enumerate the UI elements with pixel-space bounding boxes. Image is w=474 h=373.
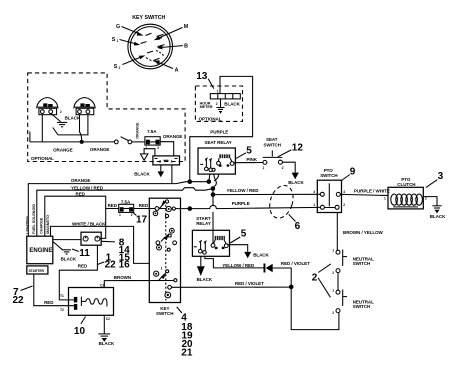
- svg-text:ENGINE: ENGINE: [29, 248, 52, 254]
- svg-text:7.5A: 7.5A: [147, 129, 157, 134]
- svg-text:YELLOW / RED: YELLOW / RED: [227, 188, 260, 193]
- svg-text:PURPLE / WHITE: PURPLE / WHITE: [354, 188, 390, 193]
- lamp ground: [51, 114, 67, 127]
- junction node E: [188, 206, 193, 211]
- svg-text:2: 2: [157, 146, 159, 150]
- red branch to fuse F2: [106, 208, 119, 210]
- purple wire from hour meter to bus: [190, 76, 253, 181]
- start relay to yellow/red diode wire: [205, 256, 264, 268]
- svg-text:1: 1: [171, 160, 173, 164]
- junction node B: [207, 179, 212, 184]
- headlight L2: [74, 98, 95, 115]
- yellow/red wire D to PTO switch: [213, 193, 320, 195]
- svg-text:2: 2: [343, 203, 345, 207]
- svg-text:4: 4: [343, 190, 345, 194]
- svg-text:1: 1: [263, 166, 265, 170]
- seat switch SW3: [263, 137, 284, 170]
- svg-text:2: 2: [131, 213, 133, 217]
- starter cable to solenoid T2: [34, 274, 74, 306]
- start relay contact ground: [228, 245, 269, 259]
- lamp connector J1: [153, 156, 180, 165]
- engine block: [27, 236, 53, 264]
- hour meter M1 terminal strip: [210, 90, 240, 99]
- svg-text:BLACK: BLACK: [224, 102, 240, 107]
- key switch pins bottom group: [154, 270, 177, 298]
- svg-text:BLACK: BLACK: [65, 116, 81, 121]
- label 8 leader: [102, 240, 115, 243]
- svg-text:CHARGE: CHARGE: [40, 217, 44, 234]
- neutral switch SW6: [332, 288, 374, 315]
- junction node A: [188, 179, 193, 184]
- svg-text:1: 1: [119, 213, 121, 217]
- brown wire solenoid C1 to key switch: [104, 281, 174, 288]
- svg-text:SWITCH: SWITCH: [156, 311, 173, 316]
- svg-text:RELAY: RELAY: [196, 221, 211, 226]
- svg-text:BLACK: BLACK: [197, 277, 213, 282]
- svg-text:1: 1: [161, 267, 163, 271]
- harness loop 6 (dashed ellipse): [266, 182, 297, 221]
- key switch pins top group: [153, 200, 175, 271]
- svg-text:1: 1: [384, 197, 386, 201]
- svg-text:6: 6: [295, 221, 301, 232]
- red wire fuse F2 through key switch: [134, 208, 190, 210]
- svg-text:ORANGE: ORANGE: [163, 134, 182, 139]
- svg-text:2: 2: [119, 66, 121, 70]
- svg-text:LIGHTING: LIGHTING: [26, 216, 30, 234]
- svg-text:5: 5: [246, 145, 252, 156]
- wire engine to connector J2: [53, 239, 81, 241]
- svg-text:ORANGE: ORANGE: [136, 122, 140, 139]
- svg-text:1: 1: [332, 288, 334, 292]
- hour meter ground: [216, 99, 224, 114]
- svg-text:12: 12: [292, 142, 304, 153]
- wire seat relay coil to node C: [213, 174, 217, 188]
- junction dot red/violet: [289, 285, 294, 290]
- svg-text:2: 2: [332, 311, 334, 315]
- svg-text:11: 11: [79, 248, 90, 259]
- svg-text:1: 1: [313, 203, 315, 207]
- svg-text:2: 2: [159, 160, 161, 164]
- svg-text:ORANGE: ORANGE: [90, 147, 109, 152]
- svg-text:T1: T1: [60, 294, 64, 298]
- yellow/red bus: [37, 188, 213, 237]
- wire seat relay coil to node B: [208, 174, 211, 181]
- brown/yellow drop to neutral switch: [336, 213, 338, 251]
- svg-text:BROWN: BROWN: [114, 275, 131, 280]
- light switch SW2: [114, 137, 131, 144]
- svg-text:2: 2: [332, 271, 334, 275]
- svg-text:RED: RED: [78, 264, 88, 269]
- svg-text:OPTIONAL: OPTIONAL: [199, 116, 222, 121]
- red bus: [45, 196, 106, 238]
- svg-text:A: A: [175, 68, 179, 74]
- svg-text:PURPLE: PURPLE: [210, 130, 228, 135]
- svg-text:3: 3: [438, 171, 444, 182]
- svg-text:SWITCH: SWITCH: [320, 173, 337, 178]
- key switch connector box SW1 rear: [149, 198, 180, 302]
- svg-text:STARTER: STARTER: [29, 269, 45, 273]
- svg-text:2: 2: [312, 272, 318, 283]
- svg-text:M: M: [184, 24, 189, 30]
- svg-text:BLACK: BLACK: [253, 253, 269, 258]
- svg-text:BLACK: BLACK: [430, 214, 446, 219]
- key switch terminal S2 contact: [147, 51, 153, 53]
- headlight L1: [37, 98, 58, 115]
- connector drop to orange bus: [171, 165, 173, 184]
- svg-text:FUEL SOLENOID: FUEL SOLENOID: [32, 204, 36, 234]
- wire lamp L1 to orange bus: [41, 115, 43, 142]
- svg-text:OPTIONAL: OPTIONAL: [31, 156, 54, 161]
- red wire connector J2 to solenoid T1: [59, 245, 97, 300]
- fuse F1 7.5A: [145, 129, 160, 150]
- wire node C to node D down to start relay: [212, 189, 214, 206]
- key switch terminal B contact: [158, 45, 165, 47]
- PTO clutch L1: [384, 177, 427, 209]
- svg-text:SWITCH: SWITCH: [353, 304, 370, 309]
- svg-text:SWITCH: SWITCH: [353, 261, 370, 266]
- start relay coil ground: [197, 256, 213, 282]
- svg-text:BLACK: BLACK: [99, 341, 115, 346]
- wire lamp L2 to junction: [80, 115, 82, 142]
- key switch detent arc (dashed): [146, 58, 160, 62]
- svg-text:1: 1: [117, 39, 119, 43]
- svg-text:MAGNETO: MAGNETO: [46, 215, 50, 234]
- svg-text:BROWN / YELLOW: BROWN / YELLOW: [343, 230, 384, 235]
- solenoid C2 ground: [98, 315, 114, 346]
- svg-text:T2: T2: [60, 308, 64, 312]
- svg-text:BLACK: BLACK: [134, 171, 150, 176]
- connector J2 (2-pin): [81, 232, 101, 245]
- wire down to start relay contact: [212, 212, 214, 244]
- svg-text:2: 2: [216, 102, 218, 106]
- svg-text:RED: RED: [44, 300, 54, 305]
- svg-text:RED: RED: [139, 203, 149, 208]
- purple wire E to PTO switch with hop: [190, 205, 321, 208]
- svg-text:SWITCH: SWITCH: [264, 142, 281, 147]
- key switch SW1 (rotary, top view): [112, 15, 189, 73]
- svg-text:KEY SWITCH: KEY SWITCH: [132, 15, 165, 21]
- seat relay K1: [198, 140, 235, 174]
- key switch pins middle group: [156, 228, 177, 251]
- labels 4 18 19 20 21 + leader: [177, 307, 182, 313]
- engine ground (11): [53, 242, 77, 262]
- svg-text:22: 22: [13, 295, 25, 306]
- pink wire seat relay to seat switch: [234, 162, 263, 164]
- neutral switch SW5: [332, 248, 374, 275]
- seat switch ground: [283, 162, 305, 185]
- starter solenoid K3: [60, 288, 113, 316]
- svg-text:10: 10: [74, 326, 86, 337]
- diode D1: [264, 264, 273, 273]
- svg-text:ORANGE: ORANGE: [71, 178, 90, 183]
- svg-text:RED / VIOLET: RED / VIOLET: [281, 261, 310, 266]
- svg-text:13: 13: [196, 71, 208, 82]
- svg-text:RED / VIOLET: RED / VIOLET: [235, 281, 264, 286]
- svg-text:PINK: PINK: [246, 157, 257, 162]
- svg-text:1: 1: [217, 90, 219, 94]
- svg-text:BLACK: BLACK: [61, 257, 77, 262]
- svg-text:22: 22: [105, 260, 117, 271]
- svg-text:7.5A: 7.5A: [121, 199, 131, 204]
- starter box: [27, 266, 48, 274]
- svg-text:PURPLE: PURPLE: [232, 201, 250, 206]
- wire lamp L2 return: [53, 115, 88, 135]
- hour meter optional dashed box: [195, 86, 242, 121]
- wire between neutral switches: [337, 273, 339, 291]
- svg-text:SEAT RELAY: SEAT RELAY: [205, 140, 232, 145]
- svg-text:5: 5: [241, 229, 247, 240]
- purple/white wire PTO switch to clutch: [340, 194, 388, 195]
- fuse F2 7.5A: [119, 199, 134, 217]
- svg-text:YELLOW / RED: YELLOW / RED: [71, 185, 104, 190]
- svg-text:G: G: [116, 24, 120, 30]
- red/violet wire diode to junction: [273, 268, 292, 287]
- svg-text:YELLOW / RED: YELLOW / RED: [222, 263, 255, 268]
- svg-text:3: 3: [313, 190, 315, 194]
- svg-text:17: 17: [136, 214, 148, 225]
- svg-text:CLUTCH: CLUTCH: [397, 182, 415, 187]
- key switch terminal M contact: [157, 34, 164, 36]
- optional lighting dashed enclosure: [28, 73, 185, 162]
- svg-text:RED: RED: [108, 203, 118, 208]
- wire fuse F1 to lamp connector: [160, 142, 174, 156]
- orange main bus: [28, 182, 209, 237]
- svg-text:S: S: [114, 64, 118, 70]
- key switch terminal A contact: [154, 58, 160, 60]
- svg-text:B: B: [184, 44, 188, 50]
- svg-text:2: 2: [60, 110, 62, 114]
- svg-text:C1: C1: [100, 283, 104, 287]
- junction node D: [211, 192, 216, 197]
- wire seat relay contact to node B: [214, 174, 219, 181]
- svg-text:1: 1: [332, 248, 334, 252]
- svg-text:METER: METER: [200, 105, 213, 109]
- junction on orange bus: [80, 140, 84, 144]
- start relay K2: [192, 216, 229, 256]
- white/black bus: [51, 226, 150, 263]
- svg-text:2: 2: [282, 166, 284, 170]
- key switch terminal G contact: [146, 33, 152, 35]
- PTO clutch ground: [423, 197, 446, 220]
- svg-text:9: 9: [350, 166, 356, 177]
- key switch terminal S1 contact: [141, 42, 147, 44]
- svg-text:S: S: [112, 37, 116, 43]
- connector ground arrow: [134, 165, 164, 177]
- svg-text:1: 1: [145, 146, 147, 150]
- PTO switch SW4: [313, 168, 345, 213]
- red/violet return to neutral switches: [291, 287, 339, 330]
- svg-text:21: 21: [181, 348, 193, 359]
- svg-text:BLACK: BLACK: [288, 180, 304, 185]
- red/violet wire key switch to junction: [172, 286, 292, 288]
- svg-text:16: 16: [119, 260, 131, 271]
- orange lamp bus wire: [30, 141, 115, 143]
- svg-text:WHITE / BLACK: WHITE / BLACK: [72, 221, 106, 226]
- svg-text:ORANGE: ORANGE: [53, 147, 72, 152]
- svg-text:RED: RED: [76, 191, 86, 196]
- junction node C: [211, 186, 216, 191]
- wire switch to fuse F1: [132, 141, 145, 143]
- harness stub arrow from connector: [140, 149, 155, 161]
- svg-text:C2: C2: [106, 317, 110, 321]
